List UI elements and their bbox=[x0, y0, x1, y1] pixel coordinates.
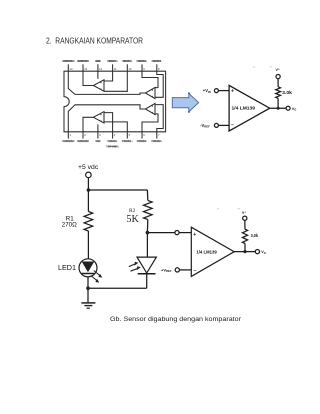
pin 4 stub bbox=[112, 132, 114, 139]
svg-text:OUTPUT 3: OUTPUT 3 bbox=[62, 60, 75, 63]
wire -VREF to input bbox=[218, 124, 229, 126]
node: LED bottom junction bbox=[86, 286, 90, 290]
node: output junction (fig3) bbox=[243, 250, 246, 253]
svg-text:V⁺: V⁺ bbox=[242, 211, 246, 215]
pin 1 stub bbox=[67, 132, 69, 139]
pin 14 stub bbox=[67, 64, 69, 71]
wire: pin 10 to comparator A non-inverting input bbox=[104, 71, 127, 91]
pin 12 stub bbox=[97, 64, 99, 71]
photodiode D1 triangle bbox=[137, 257, 156, 273]
resistor 3.0k pullup bbox=[276, 87, 281, 99]
arrow corner smudges bbox=[188, 92, 190, 94]
wire: pin 4 to comparator D top input bbox=[104, 113, 113, 132]
svg-text:13: 13 bbox=[84, 67, 87, 71]
comparator B (right upper triangle) bbox=[146, 87, 156, 98]
pinout pin numbers (top row) bbox=[70, 67, 161, 71]
terminal +VIN bbox=[214, 89, 218, 93]
wire: pin 1 to comparator C output (long horizontal) bbox=[68, 105, 145, 132]
pin 5 stub bbox=[126, 132, 128, 139]
wire R2 to sense node bbox=[146, 220, 148, 233]
wire bottom node to ground bbox=[87, 288, 89, 302]
svg-text:11: 11 bbox=[114, 67, 117, 71]
terminal V+ (fig3) bbox=[243, 216, 247, 220]
comparator C (right lower triangle) bbox=[146, 103, 156, 114]
svg-text:+VIN: +VIN bbox=[203, 88, 211, 94]
wire: pin 12 internal stub bbox=[97, 71, 99, 79]
comparator polarity marks bbox=[100, 82, 153, 121]
terminal on sense wire bbox=[175, 231, 179, 235]
terminal -VREF bbox=[214, 123, 218, 127]
svg-text:-VREF: -VREF bbox=[200, 123, 210, 129]
wire: pin 6 to comparator C bottom input bbox=[142, 114, 158, 132]
svg-text:1/4 LM139: 1/4 LM139 bbox=[232, 106, 256, 111]
wire: pin 9 to comparator B top input bbox=[142, 71, 158, 87]
svg-text:LED1: LED1 bbox=[58, 263, 76, 272]
comparator A (top-left triangle) bbox=[93, 80, 104, 91]
svg-text:−: − bbox=[194, 268, 197, 274]
terminal +VREF bbox=[175, 268, 179, 272]
wire resistor to output node bbox=[277, 98, 279, 108]
pin 13 stub bbox=[82, 64, 84, 71]
svg-text:+: + bbox=[231, 89, 234, 95]
wire down to R2 bbox=[146, 190, 148, 200]
wire: pin 11 to comparator A inverting input bbox=[104, 71, 113, 81]
terminal VO bbox=[286, 106, 290, 110]
ground symbol bbox=[81, 303, 95, 308]
wire output bbox=[234, 251, 255, 253]
svg-text:INPUT 4-: INPUT 4- bbox=[122, 60, 133, 63]
scan smudge specks bbox=[217, 66, 272, 209]
node: supply junction bbox=[87, 188, 91, 192]
svg-text:10: 10 bbox=[129, 67, 132, 71]
svg-text:2. RANGKAIAN KOMPARATOR: 2. RANGKAIAN KOMPARATOR bbox=[46, 37, 143, 46]
svg-text:GND: GND bbox=[95, 60, 101, 63]
svg-text:INPUT 3-: INPUT 3- bbox=[152, 60, 163, 63]
wire: pin 8 to comparator B bottom input bbox=[155, 71, 163, 97]
pin 10 stub bbox=[126, 64, 128, 71]
photodiode cathode bar bbox=[138, 273, 156, 275]
resistor R2 bbox=[144, 200, 153, 219]
pin label smudge bars (top) bbox=[63, 60, 160, 62]
svg-text:Gb. Sensor digabung dengan kom: Gb. Sensor digabung dengan komparator bbox=[110, 316, 242, 323]
wire supply down bbox=[87, 178, 89, 190]
svg-text:14: 14 bbox=[70, 67, 73, 71]
wire photodiode bottom vertical bbox=[146, 274, 148, 288]
wire LED1 to bottom node bbox=[87, 277, 89, 288]
svg-text:+: + bbox=[193, 232, 196, 238]
wire resistor to output node (fig3) bbox=[244, 244, 246, 252]
wire output bbox=[270, 107, 286, 109]
wire: pin 14 to comparator B output (long horizontal) bbox=[68, 71, 145, 94]
svg-text:V⁺: V⁺ bbox=[276, 68, 280, 72]
op-amp U2 triangle bbox=[229, 85, 270, 131]
wire: comparator A output to pin 13 bbox=[83, 71, 93, 85]
resistor R1 bbox=[84, 212, 93, 232]
svg-text:1/4 LM139: 1/4 LM139 bbox=[196, 250, 217, 255]
pinout pin numbers (bottom row) bbox=[70, 133, 161, 137]
svg-text:−: − bbox=[231, 123, 234, 129]
LED1 circle bbox=[79, 259, 97, 277]
resistor 3.0k pullup (fig3) bbox=[242, 229, 247, 243]
wire supply to R2 branch bbox=[88, 189, 147, 191]
svg-text:OUTPUT 4: OUTPUT 4 bbox=[77, 60, 90, 63]
svg-text:+5 vdc: +5 vdc bbox=[78, 164, 99, 171]
svg-text:INPUT 4+: INPUT 4+ bbox=[107, 60, 119, 63]
wire R1 to LED1 bbox=[87, 231, 89, 259]
wire V+ to resistor bbox=[277, 79, 279, 87]
pinout pin labels (top row) bbox=[62, 60, 162, 63]
wire down to R1 bbox=[87, 190, 89, 212]
wire: pin 7 to comparator C top input bbox=[155, 105, 163, 132]
pin 3 stub bbox=[97, 132, 99, 139]
LED1 emission arrows bbox=[91, 271, 100, 281]
terminal VO (fig3) bbox=[255, 250, 259, 254]
wire +VREF to - input bbox=[179, 269, 191, 271]
wire V+ to resistor bbox=[244, 220, 246, 229]
wire terminal to + input bbox=[179, 232, 191, 234]
svg-text:INPUT 3+: INPUT 3+ bbox=[136, 60, 148, 63]
wire sense node to comparator input bbox=[147, 232, 175, 234]
wire sense node down to photodiode bbox=[146, 233, 148, 258]
wire: pin 3 internal stub bbox=[97, 124, 99, 131]
pin label smudge bars (bottom) bbox=[63, 140, 160, 147]
LED1 cathode bar bbox=[82, 273, 95, 275]
pinout pin labels (bottom row) bbox=[62, 140, 163, 143]
comparator D (bottom-left triangle) bbox=[93, 112, 104, 123]
LED1 diode arrow (filled) bbox=[82, 262, 95, 273]
pin 9 stub bbox=[141, 64, 143, 71]
svg-text:5K: 5K bbox=[126, 214, 139, 225]
wire bottom horizontal bbox=[88, 287, 147, 289]
node: sense junction bbox=[146, 231, 150, 235]
terminal V+ bbox=[276, 75, 280, 79]
svg-text:3.0k: 3.0k bbox=[251, 233, 259, 238]
pin 11 stub bbox=[112, 64, 114, 71]
terminal +5 vdc bbox=[86, 172, 92, 178]
wire: pin 5 to comparator D bottom input bbox=[104, 122, 127, 132]
svg-text:TOP VIEW: TOP VIEW bbox=[106, 145, 120, 149]
pin 6 stub bbox=[141, 132, 143, 139]
wire: comparator D output to pin 2 bbox=[83, 117, 93, 132]
pin 8 stub bbox=[156, 64, 158, 71]
op-amp U3 triangle bbox=[191, 227, 234, 276]
blue block arrow bbox=[172, 93, 198, 111]
IC U1 package body with notch bbox=[64, 71, 166, 132]
pin 2 stub bbox=[82, 132, 84, 139]
svg-text:270Ω: 270Ω bbox=[62, 222, 77, 229]
pin 7 stub bbox=[156, 132, 158, 139]
photodiode incident arrows bbox=[129, 264, 138, 271]
node: output junction bbox=[277, 107, 280, 110]
wire +VIN to input bbox=[218, 90, 229, 92]
svg-text:3.0k: 3.0k bbox=[282, 90, 292, 95]
svg-text:12: 12 bbox=[99, 67, 102, 71]
